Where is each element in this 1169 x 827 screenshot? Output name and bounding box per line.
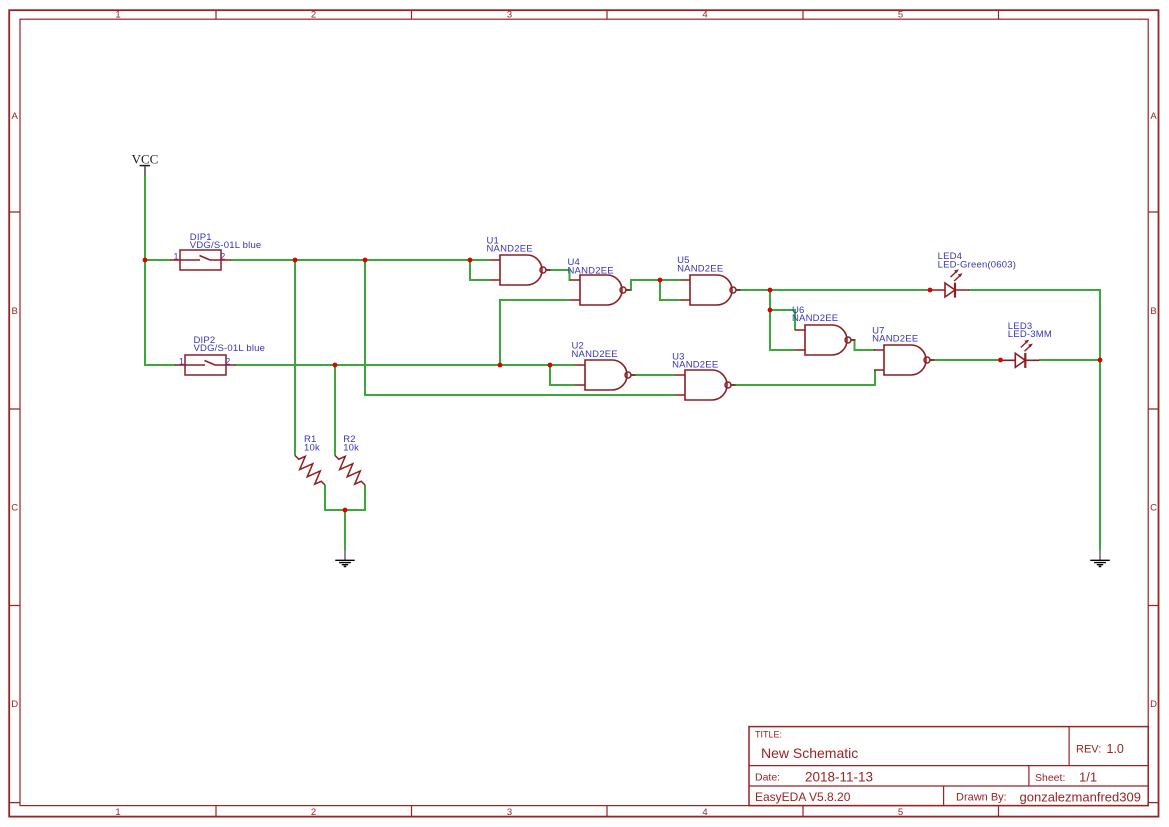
wire row1 after DIP1 [231,259,491,261]
NAND gate U2 [575,360,636,390]
svg-text:5: 5 [898,807,903,818]
svg-text:TITLE:: TITLE: [755,730,782,740]
svg-text:1.0: 1.0 [1107,742,1124,756]
wire R1 top vertical [294,260,296,456]
DIP switch DIP1 body [180,250,221,270]
wire U3 output to U7 input B [731,370,876,385]
svg-text:3: 3 [507,10,512,21]
junction U3B tap [363,258,368,263]
label U2 [572,341,618,360]
wire LED4 to right rail corner [969,290,1101,361]
junction U5 inputs [658,278,663,283]
title block frame [749,727,1148,806]
wire U5 input B branch [660,280,680,300]
junction R1-R2 ground node [343,508,348,513]
ground symbol bottom right [1090,550,1109,567]
wire U6 feed vertical [770,290,795,350]
svg-text:1: 1 [173,251,178,261]
svg-text:Drawn By:: Drawn By: [956,792,1007,804]
svg-text:LED-3MM: LED-3MM [1008,329,1052,340]
svg-text:EasyEDA V5.8.20: EasyEDA V5.8.20 [755,790,851,804]
svg-text:1: 1 [115,807,120,818]
wire R1-R2 bottom join [325,485,365,510]
svg-text:D: D [11,699,18,710]
svg-text:1/1: 1/1 [1079,769,1097,784]
svg-text:Date:: Date: [755,772,780,784]
label U7 [872,326,918,345]
svg-text:LED-Green(0603): LED-Green(0603) [938,259,1017,270]
wire U5 output to LED4 [737,289,932,291]
label U4 [568,257,614,276]
svg-text:4: 4 [702,10,707,21]
NAND gate U1 [490,255,551,285]
NAND gate U5 [680,275,741,305]
svg-text:2: 2 [311,10,316,21]
svg-text:NAND2EE: NAND2EE [672,360,718,371]
NAND gate U6 [795,325,856,355]
svg-text:10k: 10k [343,442,359,453]
ground symbol near resistors [335,550,354,567]
label R1 [304,434,320,453]
wire row2 after DIP2 [236,364,576,366]
NAND gate U7 [874,345,935,375]
wire U2 output to U3 input A [631,374,675,376]
junction U4B tap [498,363,503,368]
wire U4 output to U5 [627,280,681,290]
junction LED3 anode [998,358,1003,363]
junction LED4 anode [928,288,933,293]
svg-text:4: 4 [702,807,707,818]
svg-text:NAND2EE: NAND2EE [677,263,723,274]
svg-text:B: B [1150,306,1156,317]
label R2 [343,434,359,453]
svg-text:C: C [11,503,18,514]
wire to ground 1 [344,510,346,550]
LED LED4 [931,269,969,297]
svg-text:3: 3 [507,807,512,818]
junction R2 tap [333,363,338,368]
svg-text:A: A [1150,111,1157,122]
wire LED3 to right rail [1039,359,1100,361]
junction VCC row1 [143,258,148,263]
svg-text:NAND2EE: NAND2EE [572,349,618,360]
resistor R1 [295,456,325,486]
label U6 [792,305,838,324]
svg-text:NAND2EE: NAND2EE [568,265,614,276]
DIP switch DIP2 body [185,355,226,375]
svg-text:VDG/S-01L blue: VDG/S-01L blue [194,343,266,354]
svg-text:Sheet:: Sheet: [1035,772,1065,784]
svg-text:VCC: VCC [132,152,159,167]
svg-text:REV:: REV: [1076,744,1101,756]
wire U6 input A branch [770,310,795,331]
DIP switch DIP1 pins and blade [170,256,231,261]
svg-text:B: B [12,306,18,317]
LED LED3 [1001,340,1039,368]
label U5 [677,255,723,274]
junction U6 input A [768,308,773,313]
junction U1 inputs [468,258,473,263]
label U3 [672,352,718,371]
wire row1 to U3 input B [365,260,675,395]
VCC net flag [132,152,159,176]
wire U1 output to U4 input A [546,270,571,280]
svg-text:NAND2EE: NAND2EE [792,313,838,324]
svg-text:2018-11-13: 2018-11-13 [805,769,873,784]
svg-text:C: C [1150,503,1157,514]
resistor R2 [335,456,365,486]
junction U2 inputs [548,363,553,368]
label U1 [487,235,533,254]
wire VCC stem to row2 [145,176,176,366]
junction right rail [1098,358,1103,363]
svg-text:1: 1 [179,357,184,367]
label LED3 [1008,321,1052,340]
svg-text:1: 1 [115,10,120,21]
svg-text:10k: 10k [304,442,320,453]
svg-text:2: 2 [225,357,230,367]
wire U6 output to U7 input A [851,340,875,350]
wire U2 input B branch [550,365,575,385]
svg-text:New Schematic: New Schematic [761,745,858,761]
DIP switch DIP2 pins and blade [175,361,236,366]
label DIP2 [194,335,266,354]
title block text [755,730,1141,805]
junction U5 output [768,288,773,293]
svg-text:2: 2 [311,807,316,818]
label DIP1 [190,232,262,251]
svg-text:VDG/S-01L blue: VDG/S-01L blue [190,240,262,251]
label LED4 [938,251,1017,270]
junction R1 tap [293,258,298,263]
wire U4 input B branch [500,300,570,365]
svg-text:D: D [1150,699,1157,710]
svg-text:NAND2EE: NAND2EE [487,244,533,255]
wire right rail to ground 2 [1099,360,1101,550]
wire R2 top vertical [334,365,336,456]
svg-text:NAND2EE: NAND2EE [872,334,918,345]
NAND gate U4 [570,275,631,305]
svg-text:A: A [12,111,19,122]
svg-text:5: 5 [898,10,903,21]
wire U1 input B branch [470,260,490,280]
svg-text:2: 2 [220,251,225,261]
wire row1 lead from VCC node [145,259,171,261]
svg-text:gonzalezmanfred309: gonzalezmanfred309 [1020,790,1141,805]
NAND gate U3 [675,370,736,400]
wire U7 output to LED3 [930,359,1001,361]
